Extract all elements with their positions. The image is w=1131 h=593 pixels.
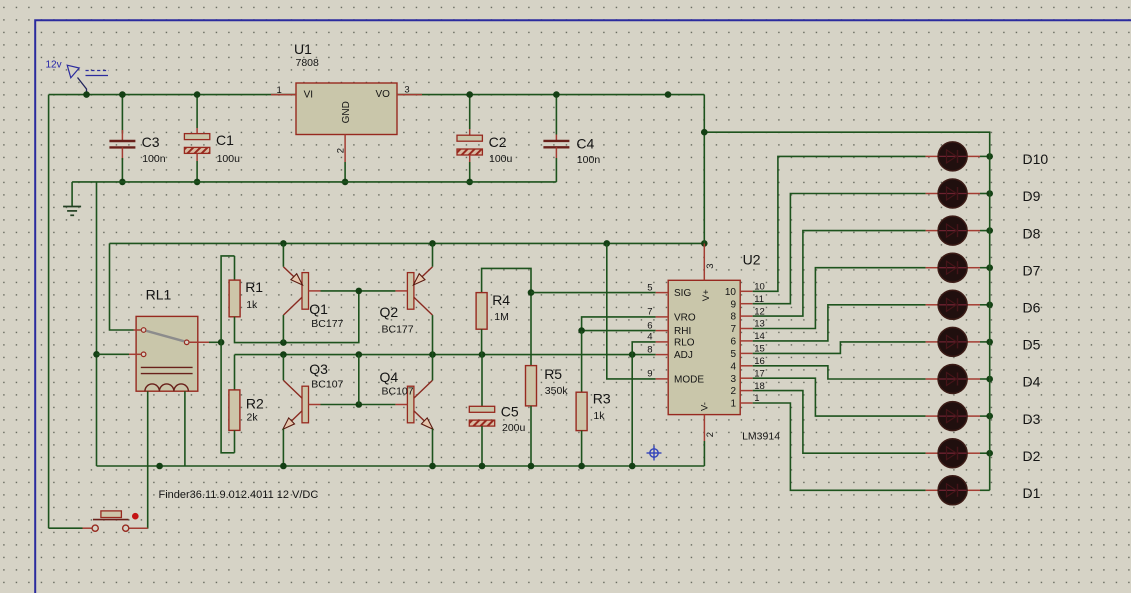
- wire C3 bottom pin stub: [121, 147, 123, 160]
- svg-text:R1: R1: [245, 279, 263, 295]
- svg-text:2: 2: [730, 386, 736, 397]
- wire left vertical rail x=96.5: [96, 182, 98, 466]
- wire C5 top lead: [481, 355, 483, 407]
- pin 14 of U2 (L6): [740, 340, 753, 342]
- svg-text:100u: 100u: [489, 153, 513, 165]
- pin 18 of U2 (L2): [740, 390, 753, 392]
- resistor R1: [229, 280, 240, 317]
- wire C4 top pin stub: [555, 135, 557, 142]
- node U1 pin2 junction: [342, 179, 349, 186]
- svg-text:VO: VO: [375, 89, 390, 100]
- svg-text:Q2: Q2: [380, 304, 399, 320]
- svg-text:MODE: MODE: [674, 374, 704, 385]
- origin marker crosshair: [647, 446, 662, 461]
- wire Q1 emitter to rail: [282, 243, 284, 266]
- wire R2 bottom lead: [234, 430, 236, 452]
- wire capacitor ground bus y=181.9: [72, 181, 556, 183]
- svg-text:7808: 7808: [296, 57, 320, 69]
- wire SIG net R4/R5 column: [530, 293, 532, 366]
- svg-text:1k: 1k: [246, 299, 258, 311]
- LED D3: [926, 402, 980, 431]
- node bottom bus junction R5: [528, 463, 535, 470]
- relay RL1 core bars: [141, 367, 193, 373]
- svg-text:5: 5: [730, 349, 736, 360]
- node Q3 collector junction: [280, 351, 287, 358]
- wire C5 bottom lead: [481, 426, 483, 466]
- pin 6 of U2 (RHI): [656, 330, 669, 332]
- node R4/C5 junction: [479, 351, 486, 358]
- svg-text:1k: 1k: [593, 410, 605, 422]
- wire LED D10 to anode bus: [980, 155, 990, 157]
- LED D6: [926, 290, 980, 319]
- svg-text:BC107: BC107: [311, 379, 343, 391]
- transistor Q2: [395, 267, 432, 315]
- svg-text:3: 3: [730, 374, 736, 385]
- svg-text:R5: R5: [544, 366, 562, 382]
- wire U2 pin 10 to LED D10: [753, 156, 926, 291]
- pin 15 of U2 (L5): [740, 352, 753, 354]
- pin 12 of U2 (L8): [740, 315, 753, 317]
- wire ground stub: [71, 182, 73, 207]
- wire U1 pin2 to ground bus: [344, 162, 346, 182]
- relay RL1 coil: [145, 384, 189, 391]
- wire R4 bottom lead: [481, 329, 483, 354]
- wire R1 bottom lead to Q1 collector node: [235, 291, 359, 343]
- LED D10: [926, 142, 980, 171]
- svg-text:C4: C4: [576, 136, 594, 152]
- node SIG junction: [528, 289, 535, 296]
- node stray junction on top rail: [665, 91, 672, 98]
- wire relay pin2 lead: [129, 353, 141, 355]
- node C4 top junction: [553, 91, 560, 98]
- wire C4 bottom lead: [555, 158, 557, 182]
- wire C4 top lead: [555, 95, 557, 135]
- wire Q4 emitter to bottom bus: [432, 429, 434, 466]
- wire C3 bottom lead: [121, 158, 123, 182]
- pin 10 of U2 (L10): [740, 290, 753, 292]
- transistor Q1: [283, 267, 320, 315]
- pin 13 of U2 (L7): [740, 328, 753, 330]
- svg-text:4: 4: [647, 332, 652, 343]
- svg-text:5: 5: [647, 282, 652, 293]
- node bottom bus junction C5: [479, 463, 486, 470]
- svg-text:C1: C1: [216, 132, 234, 148]
- wire RLO hook: [632, 342, 656, 355]
- pin 3 of U2 (V+): [703, 243, 705, 280]
- wire Q2 emitter to rail: [432, 243, 434, 266]
- wire Q3 base to Q4 base: [321, 404, 359, 406]
- wire R2 top lead from base rail: [234, 355, 236, 390]
- op-amp/IC U2 LM3914 body: [668, 280, 740, 414]
- wire R4 top hook to R5/SIG column: [482, 268, 531, 292]
- wire Q3 collector up: [282, 355, 284, 381]
- svg-text:D8: D8: [1023, 225, 1041, 241]
- regulator U1 7808 body: [296, 83, 397, 135]
- node C2 bottom junction: [466, 179, 473, 186]
- wire U2 pin 16 to LED D4: [753, 366, 926, 379]
- wire bottom ground bus y=466: [97, 465, 705, 467]
- wire C4 bottom pin stub: [555, 147, 557, 158]
- node bottom bus junction ADJ net: [629, 463, 636, 470]
- wire emitter rail y=243.4: [110, 242, 705, 244]
- node D9 anode junction: [986, 190, 993, 197]
- node battery tap junction: [83, 91, 90, 98]
- pin 1 of U2 (L1): [740, 402, 753, 404]
- svg-text:350k: 350k: [545, 385, 569, 397]
- svg-text:D6: D6: [1023, 300, 1041, 316]
- svg-text:3: 3: [404, 85, 409, 96]
- wire LED D4 to anode bus: [980, 378, 990, 380]
- svg-text:RLO: RLO: [674, 337, 695, 348]
- node D3 anode junction: [986, 413, 993, 420]
- svg-text:D4: D4: [1023, 374, 1041, 390]
- wire VRO/RHI down to R3: [581, 331, 583, 393]
- node D7 anode junction: [986, 264, 993, 271]
- node MODE junction: [604, 240, 611, 247]
- relay RL1 body: [136, 316, 198, 391]
- node Q3/Q4 base tap junction: [356, 351, 363, 358]
- wire C2 bottom lead: [469, 162, 471, 182]
- wire C3 top pin stub (red): [121, 130, 123, 141]
- svg-text:6: 6: [730, 337, 736, 348]
- resistor R3: [576, 392, 587, 430]
- svg-text:RHI: RHI: [674, 326, 691, 337]
- svg-text:BC107: BC107: [382, 385, 414, 397]
- node D5 anode junction: [986, 339, 993, 346]
- svg-text:100u: 100u: [217, 153, 241, 165]
- wire LED D5 to anode bus: [980, 341, 990, 343]
- pin 2 of U1: [344, 135, 346, 163]
- svg-text:GND: GND: [341, 101, 352, 123]
- svg-text:BC177: BC177: [311, 318, 343, 330]
- svg-text:8: 8: [730, 312, 736, 323]
- wire C1 bottom pin stub: [196, 153, 198, 161]
- svg-text:D1: D1: [1023, 485, 1041, 501]
- node Q2/Q4 collector junction: [429, 351, 436, 358]
- wire top power rail y=94.6: [49, 94, 705, 96]
- pin 2 of U2 (V-): [703, 415, 705, 441]
- wire relay pin1 lead: [134, 329, 142, 331]
- svg-text:2k: 2k: [247, 412, 259, 424]
- node C3 top junction: [119, 91, 126, 98]
- capacitor C1 (electrolytic) plates: [184, 134, 209, 154]
- LED D4: [926, 365, 980, 394]
- node V+ rail junction: [701, 240, 708, 247]
- wire U2 pin 18 to LED D2: [753, 391, 926, 454]
- svg-text:D5: D5: [1023, 337, 1041, 353]
- svg-text:6: 6: [647, 320, 652, 331]
- pin 4 of U2 (RLO): [656, 341, 669, 343]
- LED D9: [926, 179, 980, 208]
- wire LED D9 to anode bus: [980, 193, 990, 195]
- svg-text:V+: V+: [701, 289, 712, 301]
- wire Q3 emitter to bottom bus: [282, 429, 284, 466]
- pin 16 of U2 (L4): [740, 365, 753, 367]
- svg-text:7: 7: [730, 324, 736, 335]
- LED D2: [926, 439, 980, 468]
- wire U2 pin 11 to LED D9: [753, 194, 926, 304]
- svg-text:Finder36.11.9.012.4011 12 V/DC: Finder36.11.9.012.4011 12 V/DC: [159, 489, 319, 501]
- svg-text:2: 2: [335, 148, 346, 153]
- svg-text:ADJ: ADJ: [674, 350, 693, 361]
- wire relay common pin lead: [189, 341, 209, 343]
- node C1 top junction: [194, 91, 201, 98]
- capacitor C4 plates: [543, 141, 569, 147]
- wire left rail x=48.6 down to push button: [48, 95, 50, 529]
- capacitor C2 (electrolytic) plates: [457, 135, 482, 155]
- node C2 top junction: [466, 91, 473, 98]
- pin 5 of U2 (SIG): [656, 292, 669, 294]
- svg-text:8: 8: [647, 344, 652, 355]
- wire U2 pin 15 to LED D5: [753, 342, 926, 354]
- svg-text:D10: D10: [1023, 151, 1049, 167]
- node Q2 emitter junction: [429, 240, 436, 247]
- node bottom bus junction R3: [578, 463, 585, 470]
- svg-text:100n: 100n: [577, 154, 601, 166]
- wire Q1 base to Q2 base: [321, 290, 359, 292]
- svg-text:LM3914: LM3914: [742, 431, 780, 443]
- resistor R4: [476, 293, 487, 330]
- wire relay coil right lead to bottom bus: [184, 391, 186, 466]
- node Q3/Q4 base junction: [356, 401, 363, 408]
- svg-text:VI: VI: [304, 89, 313, 100]
- wire R3 bottom lead: [581, 431, 583, 466]
- pin 3 of U1: [397, 94, 422, 96]
- node C1 bottom junction: [194, 179, 201, 186]
- LED D8: [926, 216, 980, 245]
- node Q1 collector junction: [280, 339, 287, 346]
- wire R1 top lead: [234, 256, 236, 280]
- wire MODE hook: [607, 243, 656, 379]
- ground: [63, 207, 81, 216]
- svg-text:D9: D9: [1023, 188, 1041, 204]
- wire U2 pin 14 to LED D6: [753, 305, 926, 341]
- svg-text:RL1: RL1: [146, 287, 172, 303]
- svg-text:V-: V-: [700, 402, 711, 411]
- transistor Q3: [283, 380, 321, 429]
- svg-text:10: 10: [725, 287, 737, 298]
- LED D1: [926, 476, 980, 505]
- wire U2 pin 17 to LED D3: [753, 378, 926, 416]
- pin 7 of U2 (VRO): [656, 316, 669, 318]
- svg-text:SIG: SIG: [674, 288, 691, 299]
- svg-text:C2: C2: [489, 134, 507, 150]
- wire LED anode bus: [703, 95, 705, 244]
- wire Q1 collector down: [282, 315, 284, 343]
- resistor R2: [229, 390, 240, 431]
- capacitor C5 (electrolytic) plates: [469, 406, 494, 426]
- pin 17 of U2 (L3): [740, 377, 753, 379]
- svg-text:R2: R2: [246, 396, 264, 412]
- pin 8 of U2 (ADJ): [656, 354, 669, 356]
- node C3 bottom junction: [119, 179, 126, 186]
- pin 11 of U2 (L9): [740, 303, 753, 305]
- battery 12v source symbol: [67, 65, 109, 94]
- svg-text:1M: 1M: [494, 311, 509, 323]
- node relay common to R1/R2 rail: [218, 339, 225, 346]
- svg-text:R3: R3: [593, 391, 611, 407]
- svg-text:Q3: Q3: [309, 361, 328, 377]
- wire C1 top lead: [196, 95, 198, 128]
- svg-text:Q4: Q4: [380, 369, 399, 385]
- node anode bus tap junction: [701, 129, 708, 136]
- wire C2 top lead: [469, 95, 471, 129]
- svg-text:BC177: BC177: [382, 323, 414, 335]
- wire base tap down: [358, 355, 360, 405]
- node D2 anode junction: [986, 450, 993, 457]
- svg-text:C3: C3: [142, 134, 160, 150]
- push button switch: [83, 511, 148, 531]
- pin 1 of U1: [271, 94, 296, 96]
- wire left rail to button: [49, 527, 83, 529]
- pin 9 of U2 (MODE): [656, 378, 669, 380]
- wire LED D3 to anode bus: [980, 415, 990, 417]
- wire LED D6 to anode bus: [980, 304, 990, 306]
- node D4 anode junction: [986, 376, 993, 383]
- wire relay coil left lead down to button: [147, 391, 149, 528]
- resistor R5: [526, 366, 537, 406]
- wire LED D7 to anode bus: [980, 267, 990, 269]
- wire LED D8 to anode bus: [980, 230, 990, 232]
- svg-text:1: 1: [277, 85, 282, 96]
- svg-text:Q1: Q1: [309, 301, 328, 317]
- svg-text:200u: 200u: [502, 422, 526, 434]
- svg-text:D2: D2: [1023, 448, 1041, 464]
- svg-text:12v: 12v: [46, 59, 62, 70]
- node bottom bus junction Q3 emitter: [280, 463, 287, 470]
- wire R5 bottom lead: [530, 406, 532, 466]
- svg-text:R4: R4: [492, 292, 510, 308]
- wire LED D2 to anode bus: [980, 452, 990, 454]
- wire C2 bottom pin stub: [469, 155, 471, 162]
- transistor Q4: [395, 380, 433, 429]
- capacitor C3 plates: [109, 141, 135, 147]
- button red indicator dot: [132, 513, 139, 520]
- node bottom bus junction stray junction: [156, 463, 163, 470]
- node D10 anode junction: [986, 153, 993, 160]
- svg-text:9: 9: [647, 369, 652, 380]
- wire U2 pin 12 to LED D8: [753, 231, 926, 317]
- svg-text:4: 4: [730, 361, 736, 372]
- relay RL1 switch contacts: [141, 328, 189, 357]
- wire Q2 collector / Q4 collector link: [432, 315, 434, 380]
- wire C1 top pin stub: [196, 128, 198, 134]
- svg-text:C5: C5: [501, 404, 519, 420]
- svg-text:1: 1: [730, 399, 736, 410]
- LED D7: [926, 253, 980, 282]
- svg-text:3: 3: [705, 264, 716, 269]
- wire ADJ column down to bus: [631, 355, 633, 466]
- svg-text:100n: 100n: [142, 153, 166, 165]
- svg-text:7: 7: [647, 307, 652, 318]
- wire R1R2 bypass rail x=221.1: [221, 256, 234, 453]
- wire U2 pin 1 to LED D1: [753, 403, 926, 490]
- svg-text:D3: D3: [1023, 411, 1041, 427]
- svg-text:2: 2: [705, 432, 716, 437]
- node Q1/Q2 base junction: [356, 288, 363, 295]
- LED D5: [926, 327, 980, 356]
- wire C1 bottom lead: [196, 161, 198, 182]
- wire C3 top lead (green): [121, 95, 123, 134]
- node Q1 emitter junction: [280, 240, 287, 247]
- wire VRO hook: [582, 317, 656, 331]
- wire RHI to junction: [582, 330, 656, 332]
- svg-text:VRO: VRO: [674, 312, 696, 323]
- node D6 anode junction: [986, 302, 993, 309]
- svg-text:U1: U1: [294, 41, 312, 57]
- node relay pin2 junction: [93, 351, 100, 358]
- svg-text:D7: D7: [1023, 262, 1041, 278]
- svg-text:U2: U2: [743, 252, 761, 268]
- node D8 anode junction: [986, 227, 993, 234]
- node bottom bus junction Q4 emitter: [429, 463, 436, 470]
- node RLO/ADJ junction: [629, 351, 636, 358]
- node VRO/RHI junction: [578, 327, 585, 334]
- svg-text:9: 9: [730, 299, 736, 310]
- wire base rail y=354.6 to U2 ADJ: [235, 354, 656, 356]
- wire C2 top pin stub: [469, 129, 471, 135]
- wire LED D1 to anode bus: [980, 489, 990, 491]
- wire SIG to U2: [531, 292, 656, 294]
- wire U2 pin 13 to LED D7: [753, 268, 926, 329]
